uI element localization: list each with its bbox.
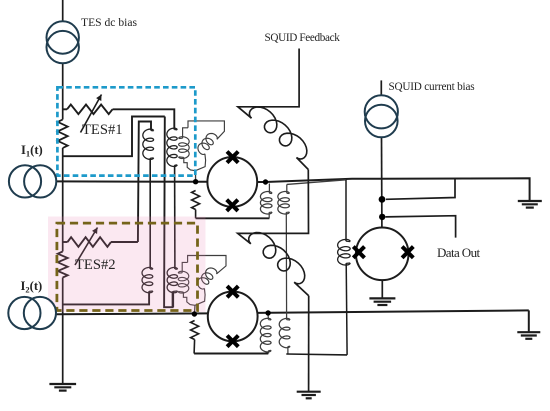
wire: SQUID1 shunt branch <box>192 191 200 210</box>
wire: I2 signal line <box>56 312 208 315</box>
inductor W1 diagonal winding <box>198 133 217 154</box>
label TES#2 <box>75 257 116 274</box>
wire: SQUID1 output line to ground <box>257 178 529 200</box>
washer coupling body W1 (SQUID1) <box>188 121 224 139</box>
resistor (TES#2 left branch) <box>58 252 68 278</box>
junction X (amplifier right) <box>402 247 413 258</box>
inductor L1a (TES#1 input coil a) <box>151 130 154 132</box>
inductor W1 vertical winding <box>179 137 183 139</box>
wire: feedback return to ground <box>308 296 310 392</box>
wire: Lb to SQUID2 coupling coil (long vertical) <box>285 212 287 320</box>
dashed box TES#1 <box>57 87 195 175</box>
inductor SQUID1 coupling coil Lb <box>286 184 288 193</box>
junction X (SQUID1 bottom) <box>227 200 238 211</box>
inductor W2 vertical winding <box>178 272 182 274</box>
wire: SQUID2 shunt rail <box>194 353 268 355</box>
wire: TES#1 lower rail <box>63 117 165 157</box>
wire: washer W1 tap to node A <box>195 171 197 182</box>
inductor SQUID2 damping coil La2 <box>267 316 269 320</box>
wire: left main branch between TES sections <box>62 148 64 252</box>
junction X (SQUID2 top) <box>227 286 238 297</box>
wire: SQUID2 output line to ground <box>258 310 529 313</box>
label I1(t) <box>21 143 43 159</box>
wire: L1a to L2a (long vertical) <box>149 158 151 269</box>
label TES dc bias <box>81 16 137 29</box>
ground (right upper) <box>518 200 542 202</box>
inductor L2b (TES#2 input coil b) <box>175 268 178 270</box>
inductor amplifier input coil <box>345 180 347 241</box>
wire: TES dc bias top stub <box>62 0 64 22</box>
wire: long vertical link to TES#2 rail (bracket leg) <box>164 117 173 308</box>
wire: bias line to amplifier SQUID <box>381 137 383 227</box>
junction X (SQUID2 bottom) <box>227 336 238 347</box>
inductor SQUID1 damping coil La <box>268 184 270 194</box>
current source I2(t) <box>9 297 56 329</box>
label TES#1 <box>82 122 123 139</box>
label SQUID current bias <box>389 81 475 93</box>
wire: summing line to amplifier input coil <box>287 180 346 185</box>
wire: I1 signal line <box>56 180 207 182</box>
arrow of variable resistor TES#1 <box>81 95 102 133</box>
resistor (TES#1 left branch) <box>58 120 68 149</box>
variable resistor TES#1 <box>63 108 67 110</box>
inductor L2a (TES#2 input coil a) <box>150 268 153 270</box>
washer W2 lower body <box>183 292 195 305</box>
washer coupling body W2 (SQUID2) <box>188 256 226 274</box>
inductor SQUID2 coupling coil Lb2 <box>287 319 290 321</box>
wire: amplifier upper tap to output ground line <box>386 178 455 199</box>
node: bias lower junction dot <box>379 214 385 220</box>
wire: feedback link to SQUID2 coil <box>238 170 309 244</box>
inductor feedback coil F1 (SQUID1) <box>249 107 306 159</box>
label I2(t) <box>21 279 43 295</box>
node: bias upper junction dot <box>379 196 386 203</box>
wire: SQUID feedback input <box>238 49 299 119</box>
junction X (SQUID1 top) <box>227 152 238 163</box>
ground (right lower) <box>517 331 540 333</box>
inductor feedback coil F2 (SQUID2) <box>249 233 305 284</box>
wire: left main branch below TES dc bias source <box>62 63 64 119</box>
inductor W2 diagonal winding <box>197 268 216 289</box>
wire: washer W2 tap to node B <box>193 305 196 314</box>
wire: amplifier SQUID to ground <box>381 280 383 298</box>
wire: L2b bottom stub <box>172 291 174 307</box>
wire: summing ground rail <box>286 353 347 356</box>
node B junction dot (SQUID2 left) <box>192 311 197 316</box>
junction X (amplifier left) <box>353 247 364 258</box>
dashed box TES#2 <box>57 223 198 310</box>
node junction dot (SQUID1 right) <box>263 179 268 184</box>
op: SQUID2 circle <box>208 292 258 342</box>
washer W1 lower body <box>184 157 196 170</box>
current source I1(t) <box>9 165 41 197</box>
wire: L1b to L2b (long vertical) <box>174 165 176 269</box>
node junction dot (SQUID2 right) <box>265 310 270 315</box>
wire: TES#1 resistor output to input coil L1b <box>113 109 175 129</box>
current source TES dc bias <box>47 21 79 53</box>
wire: TES#2 lower rail <box>63 291 149 304</box>
shaded region TES#2 <box>48 217 206 313</box>
op: amplifier SQUID circle <box>356 228 409 281</box>
wire: SQUID2 shunt branch <box>191 321 199 340</box>
current source SQUID current bias <box>365 95 398 128</box>
wire: left main branch to ground <box>62 278 64 384</box>
arrow of variable resistor TES#2 <box>75 228 98 266</box>
label Data Out <box>437 245 480 261</box>
ground (bottom middle) <box>297 391 321 393</box>
wire: SQUID current bias stub <box>380 80 382 95</box>
inductor L1b (TES#1 input coil b) <box>174 129 177 131</box>
ground (bottom left) <box>49 383 76 385</box>
node A junction dot (SQUID1 left) <box>193 179 198 184</box>
ground (below amplifier SQUID) <box>369 297 395 299</box>
label SQUID Feedback <box>265 32 340 44</box>
wire: SQUID1 shunt rail <box>196 217 270 219</box>
op: SQUID1 circle <box>207 157 257 207</box>
wire: Data Out terminal <box>386 216 456 238</box>
variable resistor TES#2 <box>63 241 68 243</box>
wire: bracket to input coil L1a <box>138 122 151 243</box>
